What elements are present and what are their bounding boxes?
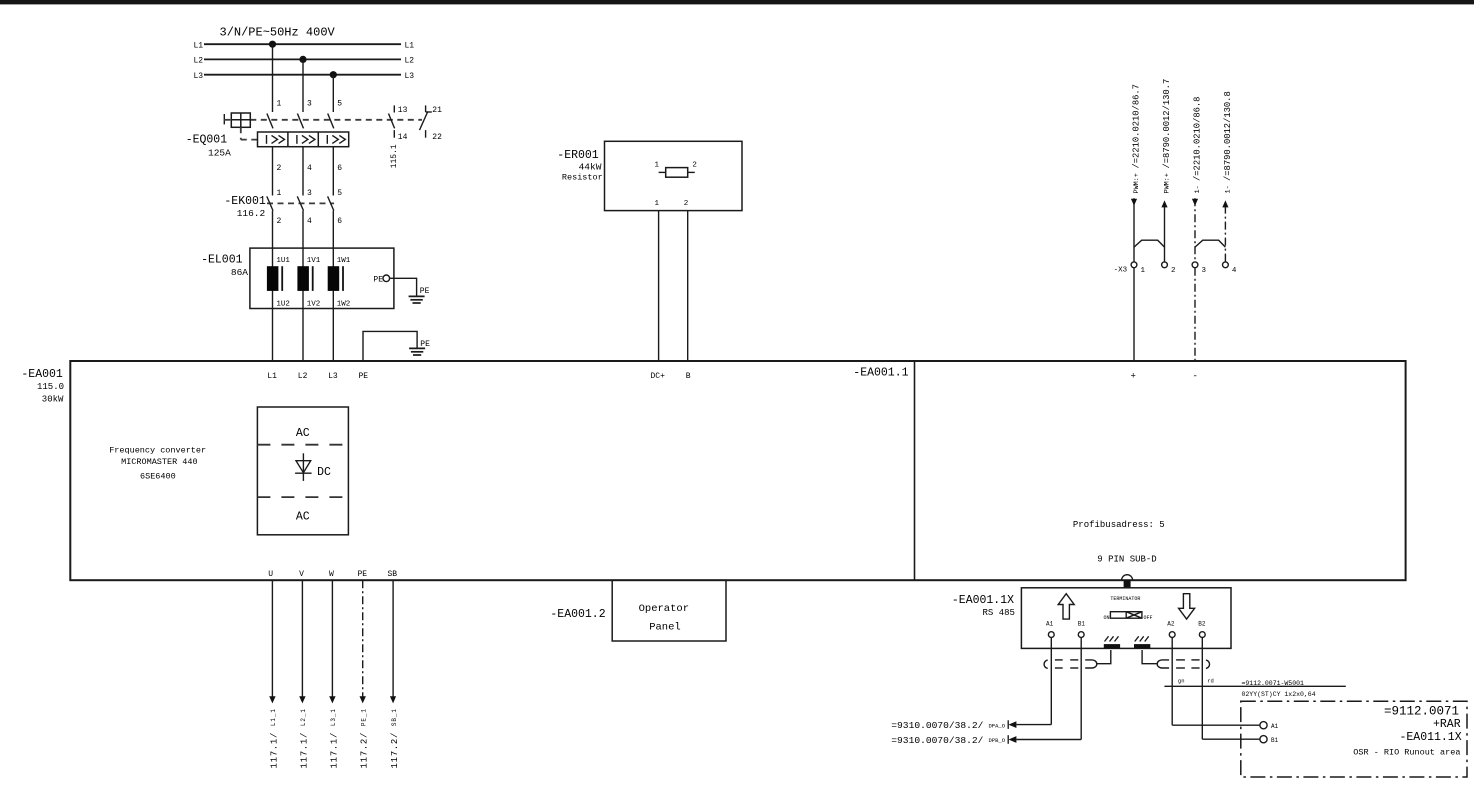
wire A1 to interruption DPA_O [1016, 724, 1051, 726]
svg-text:1W1: 1W1 [337, 257, 351, 265]
svg-text:-EQ001: -EQ001 [186, 133, 228, 146]
svg-text:PE: PE [373, 275, 383, 284]
svg-text:/=2210.0210/86.8: /=2210.0210/86.8 [1193, 97, 1203, 181]
svg-text:/=2210.0210/86.7: /=2210.0210/86.7 [1132, 84, 1142, 168]
EL001 winding U [267, 266, 282, 291]
svg-text:13: 13 [398, 106, 408, 115]
EL001 winding V [297, 266, 312, 291]
svg-text:L3_1: L3_1 [330, 708, 337, 726]
svg-text:-EL001: -EL001 [201, 254, 243, 267]
svg-text:-EA001.2: -EA001.2 [550, 608, 605, 621]
svg-text:A2: A2 [1167, 620, 1175, 627]
svg-text:2: 2 [684, 200, 689, 208]
svg-text:22: 22 [432, 133, 442, 142]
svg-text:AC: AC [296, 427, 310, 440]
svg-text:rd: rd [1207, 678, 1214, 685]
svg-text:5: 5 [337, 100, 342, 109]
svg-text:6: 6 [337, 217, 342, 226]
svg-text:B: B [686, 372, 691, 381]
EL001 winding W [328, 266, 343, 291]
svg-text:-EA001.1: -EA001.1 [853, 367, 908, 380]
EA001.1 divider [914, 361, 916, 580]
svg-text:1: 1 [1141, 267, 1146, 275]
arrow PE [360, 696, 366, 703]
wire SB output [392, 580, 394, 700]
svg-text:L3: L3 [328, 372, 338, 381]
svg-text:117.1/: 117.1/ [269, 732, 279, 769]
wire phase2 through EL001 [302, 248, 304, 308]
EQ001 aux contact 13/14 [389, 105, 395, 137]
wire ER001 pin1 to DC+ [658, 211, 660, 361]
svg-text:DPA_O: DPA_O [989, 722, 1006, 729]
svg-text:86A: 86A [231, 267, 248, 278]
svg-text:L1: L1 [405, 41, 415, 50]
svg-text:4: 4 [307, 164, 312, 173]
cable screen left [1044, 650, 1111, 668]
svg-text:DPB_O: DPB_O [989, 737, 1006, 744]
svg-text:TERMINATOR: TERMINATOR [1110, 596, 1140, 602]
svg-text:115.0: 115.0 [37, 382, 64, 392]
junction dot on L2 [299, 56, 306, 63]
svg-text:-: - [1193, 371, 1198, 381]
converter AC/DC/AC block [257, 407, 348, 535]
terminator switch [1110, 612, 1142, 619]
svg-text:OFF: OFF [1144, 615, 1153, 621]
svg-text:Operator: Operator [639, 603, 689, 615]
arrow W [329, 696, 335, 703]
svg-text:ON: ON [1104, 615, 1110, 621]
svg-text:W: W [329, 570, 334, 579]
svg-text:3: 3 [307, 100, 312, 109]
svg-text:DC+: DC+ [651, 372, 666, 381]
wire phase1 EK001 to EL001 [272, 211, 274, 249]
arrow V [299, 696, 305, 703]
svg-text:6: 6 [337, 164, 342, 173]
shield hatch right [1135, 636, 1149, 641]
terminal A2 circle [1169, 632, 1175, 638]
incoming arrow wire X3:3 dash-dot [1192, 198, 1198, 262]
svg-text:02YY(ST)CY 1x2x0,64: 02YY(ST)CY 1x2x0,64 [1242, 691, 1316, 698]
svg-text:1V1: 1V1 [307, 257, 321, 265]
terminal X3:1 circle [1131, 262, 1137, 268]
shield clamp right [1134, 644, 1150, 648]
svg-text:1-: 1- [1225, 185, 1233, 193]
svg-text:PWM:+: PWM:+ [1164, 173, 1172, 193]
svg-text:4: 4 [307, 217, 312, 226]
wire L2 bus [204, 58, 401, 60]
wire L1 bus [204, 43, 401, 45]
wire phase3 through EL001 [332, 248, 334, 308]
wire phase2 EL001 to EA001 [302, 309, 304, 362]
svg-text:PE: PE [420, 340, 430, 349]
wire V output [301, 580, 303, 700]
contactor EK001 pole 3 [328, 196, 334, 210]
cable screen right [1142, 650, 1209, 668]
ground symbol PE upper [409, 296, 425, 303]
svg-text:PE: PE [359, 372, 369, 381]
svg-text:9 PIN SUB-D: 9 PIN SUB-D [1097, 555, 1156, 565]
svg-text:1U2: 1U2 [276, 301, 290, 309]
cable W5001 line [1164, 685, 1345, 687]
terminal B2 circle [1199, 632, 1205, 638]
up arrow symbol [1058, 594, 1074, 619]
breaker EQ001 pole 2 contact [297, 114, 303, 129]
svg-text:RS 485: RS 485 [983, 608, 1015, 618]
svg-text:2: 2 [1171, 267, 1176, 275]
svg-text:5: 5 [337, 189, 342, 198]
terminal A1 circle [1048, 632, 1054, 638]
svg-text:14: 14 [398, 133, 408, 142]
svg-text:=9112.0071: =9112.0071 [1384, 705, 1459, 719]
svg-text:L3: L3 [405, 72, 415, 81]
svg-text:+: + [1131, 371, 1136, 381]
line reactor EL001 box [250, 248, 394, 308]
svg-text:B1: B1 [1078, 620, 1086, 627]
wire B2 to RIO B1 [1202, 738, 1260, 740]
arrow U [269, 696, 275, 703]
terminal B1 circle [1078, 632, 1084, 638]
svg-text:3: 3 [1202, 267, 1207, 275]
svg-text:116.2: 116.2 [237, 208, 266, 219]
breaker EQ001 pole 3 contact [328, 114, 334, 129]
interface EA001.1X box [1021, 588, 1231, 649]
brake resistor ER001 box [605, 141, 743, 210]
svg-text:21: 21 [432, 106, 442, 115]
trip symbol I>> cell3 [327, 135, 345, 144]
svg-text:=9112.0071-W5001: =9112.0071-W5001 [1242, 680, 1305, 687]
interruption arrow DPB_O [1008, 735, 1016, 744]
svg-text:PE: PE [358, 570, 368, 579]
jumper X3 1-2 [1134, 240, 1165, 247]
svg-text:=9310.0070/38.2/: =9310.0070/38.2/ [891, 735, 983, 746]
wire phase1 drop to EQ001 [272, 44, 274, 112]
outgoing arrow wire X3:2 [1161, 200, 1167, 262]
wire phase2 EQ001 to EK001 [302, 147, 304, 196]
operator panel box [612, 580, 726, 641]
wire phase3 EQ001 to EK001 [332, 147, 334, 196]
shield clamp left [1104, 644, 1120, 648]
terminal X3:4 circle [1223, 262, 1229, 268]
wire W output [331, 580, 333, 700]
EL001 PE terminal circle [383, 275, 390, 282]
svg-text:-EA001.1X: -EA001.1X [952, 594, 1014, 607]
svg-text:PE_1: PE_1 [361, 708, 368, 726]
svg-text:L2: L2 [298, 372, 308, 381]
svg-text:A1: A1 [1046, 620, 1054, 627]
wire phase3 EL001 to EA001 [332, 309, 334, 362]
svg-text:-ER001: -ER001 [557, 149, 599, 162]
wire A2 to RIO A1 [1172, 724, 1260, 726]
svg-text:115.1: 115.1 [390, 144, 399, 168]
svg-text:6SE6400: 6SE6400 [140, 471, 176, 481]
wire A2 down [1171, 638, 1173, 726]
svg-text:2: 2 [692, 162, 697, 170]
arrow SB [390, 696, 396, 703]
resistor symbol in ER001 [659, 168, 695, 178]
svg-text:117.2/: 117.2/ [390, 732, 400, 769]
wire EL001 PE to ground [390, 278, 417, 296]
wire U output [271, 580, 273, 700]
breaker EQ001 trip unit box [258, 132, 349, 147]
svg-text:SB: SB [388, 570, 398, 579]
jumper X3 3-4 [1195, 240, 1225, 247]
svg-text:-EA001: -EA001 [21, 368, 63, 381]
svg-text:30kW: 30kW [42, 395, 64, 405]
svg-text:117.1/: 117.1/ [299, 732, 309, 769]
wire B1 down [1080, 638, 1082, 740]
svg-text:Resistor: Resistor [562, 173, 603, 183]
down arrow symbol [1179, 594, 1195, 619]
svg-text:PWM:+: PWM:+ [1133, 173, 1141, 193]
contactor EK001 mechanical dashed link [267, 202, 334, 204]
EQ001 aux contact 21/22 NC [420, 105, 432, 137]
wire phase2 EK001 to EL001 [302, 211, 304, 249]
svg-text:gn: gn [1178, 678, 1185, 685]
wire phase2 drop to EQ001 [302, 59, 304, 112]
svg-text:117.2/: 117.2/ [360, 732, 370, 769]
contactor EK001 pole 2 [297, 196, 303, 210]
svg-text:2: 2 [277, 164, 282, 173]
wire L3 bus [204, 74, 401, 76]
svg-text:Panel: Panel [649, 621, 681, 633]
outgoing arrow wire X3:4 dash-dot [1222, 200, 1228, 262]
svg-text:L2: L2 [405, 57, 415, 66]
svg-text:L1: L1 [194, 41, 204, 50]
svg-text:AC: AC [296, 511, 310, 524]
svg-text:L3: L3 [194, 72, 204, 81]
svg-text:-EA011.1X: -EA011.1X [1400, 731, 1462, 744]
svg-text:OSR - RIO Runout area: OSR - RIO Runout area [1353, 747, 1460, 757]
svg-text:SB_1: SB_1 [391, 708, 398, 726]
svg-text:A1: A1 [1271, 723, 1279, 730]
svg-text:1: 1 [277, 189, 282, 198]
svg-text:-EK001: -EK001 [224, 195, 266, 208]
svg-text:B1: B1 [1271, 737, 1279, 744]
wire phase3 drop to EQ001 [332, 75, 334, 112]
ground symbol PE lower [409, 348, 425, 355]
wire X3:1 to EA001.1 plus [1133, 268, 1135, 361]
svg-text:+RAR: +RAR [1433, 718, 1461, 731]
top border bar [0, 0, 1474, 4]
RIO terminal A1 circle [1260, 722, 1267, 729]
svg-text:1: 1 [655, 162, 660, 170]
contactor EK001 pole 1 [267, 196, 273, 210]
remote RIO box dash-dot border [1241, 701, 1467, 777]
svg-text:L2: L2 [194, 57, 204, 66]
svg-text:Profibusadress: 5: Profibusadress: 5 [1073, 520, 1165, 530]
svg-text:4: 4 [1232, 267, 1237, 275]
svg-text:2: 2 [277, 217, 282, 226]
junction dot on L3 [330, 71, 337, 78]
svg-text:V: V [299, 570, 304, 579]
junction dot on L1 [269, 41, 276, 48]
svg-text:44kW: 44kW [579, 161, 602, 172]
SUB-D connector symbol [1122, 575, 1133, 588]
svg-text:/=8790.0012/130.7: /=8790.0012/130.7 [1162, 79, 1172, 169]
svg-text:125A: 125A [208, 148, 231, 159]
svg-text:-X3: -X3 [1114, 266, 1128, 274]
wire ER001 pin2 to B [687, 211, 689, 361]
trip symbol I>> cell2 [297, 135, 315, 144]
interruption arrow DPA_O [1008, 720, 1016, 729]
svg-text:L2_1: L2_1 [300, 708, 307, 726]
trip symbol I>> cell1 [267, 135, 285, 144]
svg-text:1-: 1- [1194, 185, 1202, 193]
wire PE output dash-dot [362, 580, 364, 700]
svg-text:117.1/: 117.1/ [329, 732, 339, 769]
svg-text:PE: PE [420, 287, 430, 296]
terminal X3:2 circle [1162, 262, 1168, 268]
svg-text:DC: DC [317, 466, 331, 479]
wire B2 down [1201, 638, 1203, 740]
svg-text:1: 1 [655, 200, 660, 208]
frequency converter EA001 main box [70, 361, 1405, 580]
svg-text:1W2: 1W2 [337, 301, 351, 309]
incoming arrow wire X3:1 [1131, 198, 1137, 262]
svg-text:MICROMASTER 440: MICROMASTER 440 [121, 457, 198, 467]
svg-text:=9310.0070/38.2/: =9310.0070/38.2/ [891, 720, 983, 731]
shield hatch left [1105, 636, 1119, 641]
svg-text:/=8790.0012/130.8: /=8790.0012/130.8 [1223, 91, 1233, 181]
wire phase3 EK001 to EL001 [332, 211, 334, 249]
svg-text:Frequency converter: Frequency converter [109, 446, 206, 456]
wire phase1 through EL001 [272, 248, 274, 308]
wire main box PE terminal to ground [363, 331, 417, 361]
svg-text:3: 3 [307, 189, 312, 198]
terminal X3:3 circle [1192, 262, 1198, 268]
svg-text:1: 1 [277, 100, 282, 109]
wire X3:3 to EA001.1 minus dash-dot [1194, 268, 1196, 361]
breaker EQ001 mechanical linkage [224, 113, 422, 140]
svg-text:L1: L1 [267, 372, 277, 381]
wire phase1 EL001 to EA001 [272, 309, 274, 362]
svg-text:U: U [268, 570, 273, 579]
breaker EQ001 pole 1 contact [267, 114, 273, 129]
svg-text:1V2: 1V2 [307, 301, 321, 309]
svg-text:B2: B2 [1198, 620, 1206, 627]
svg-text:3/N/PE~50Hz 400V: 3/N/PE~50Hz 400V [220, 26, 336, 40]
svg-text:L1_1: L1_1 [270, 708, 277, 726]
wire phase1 EQ001 to EK001 [272, 147, 274, 196]
wire B1 to interruption DPB_O [1016, 739, 1081, 741]
svg-text:1U1: 1U1 [276, 257, 290, 265]
RIO terminal B1 circle [1260, 736, 1267, 743]
wire A1 down [1050, 638, 1052, 725]
diode symbol [295, 453, 312, 481]
